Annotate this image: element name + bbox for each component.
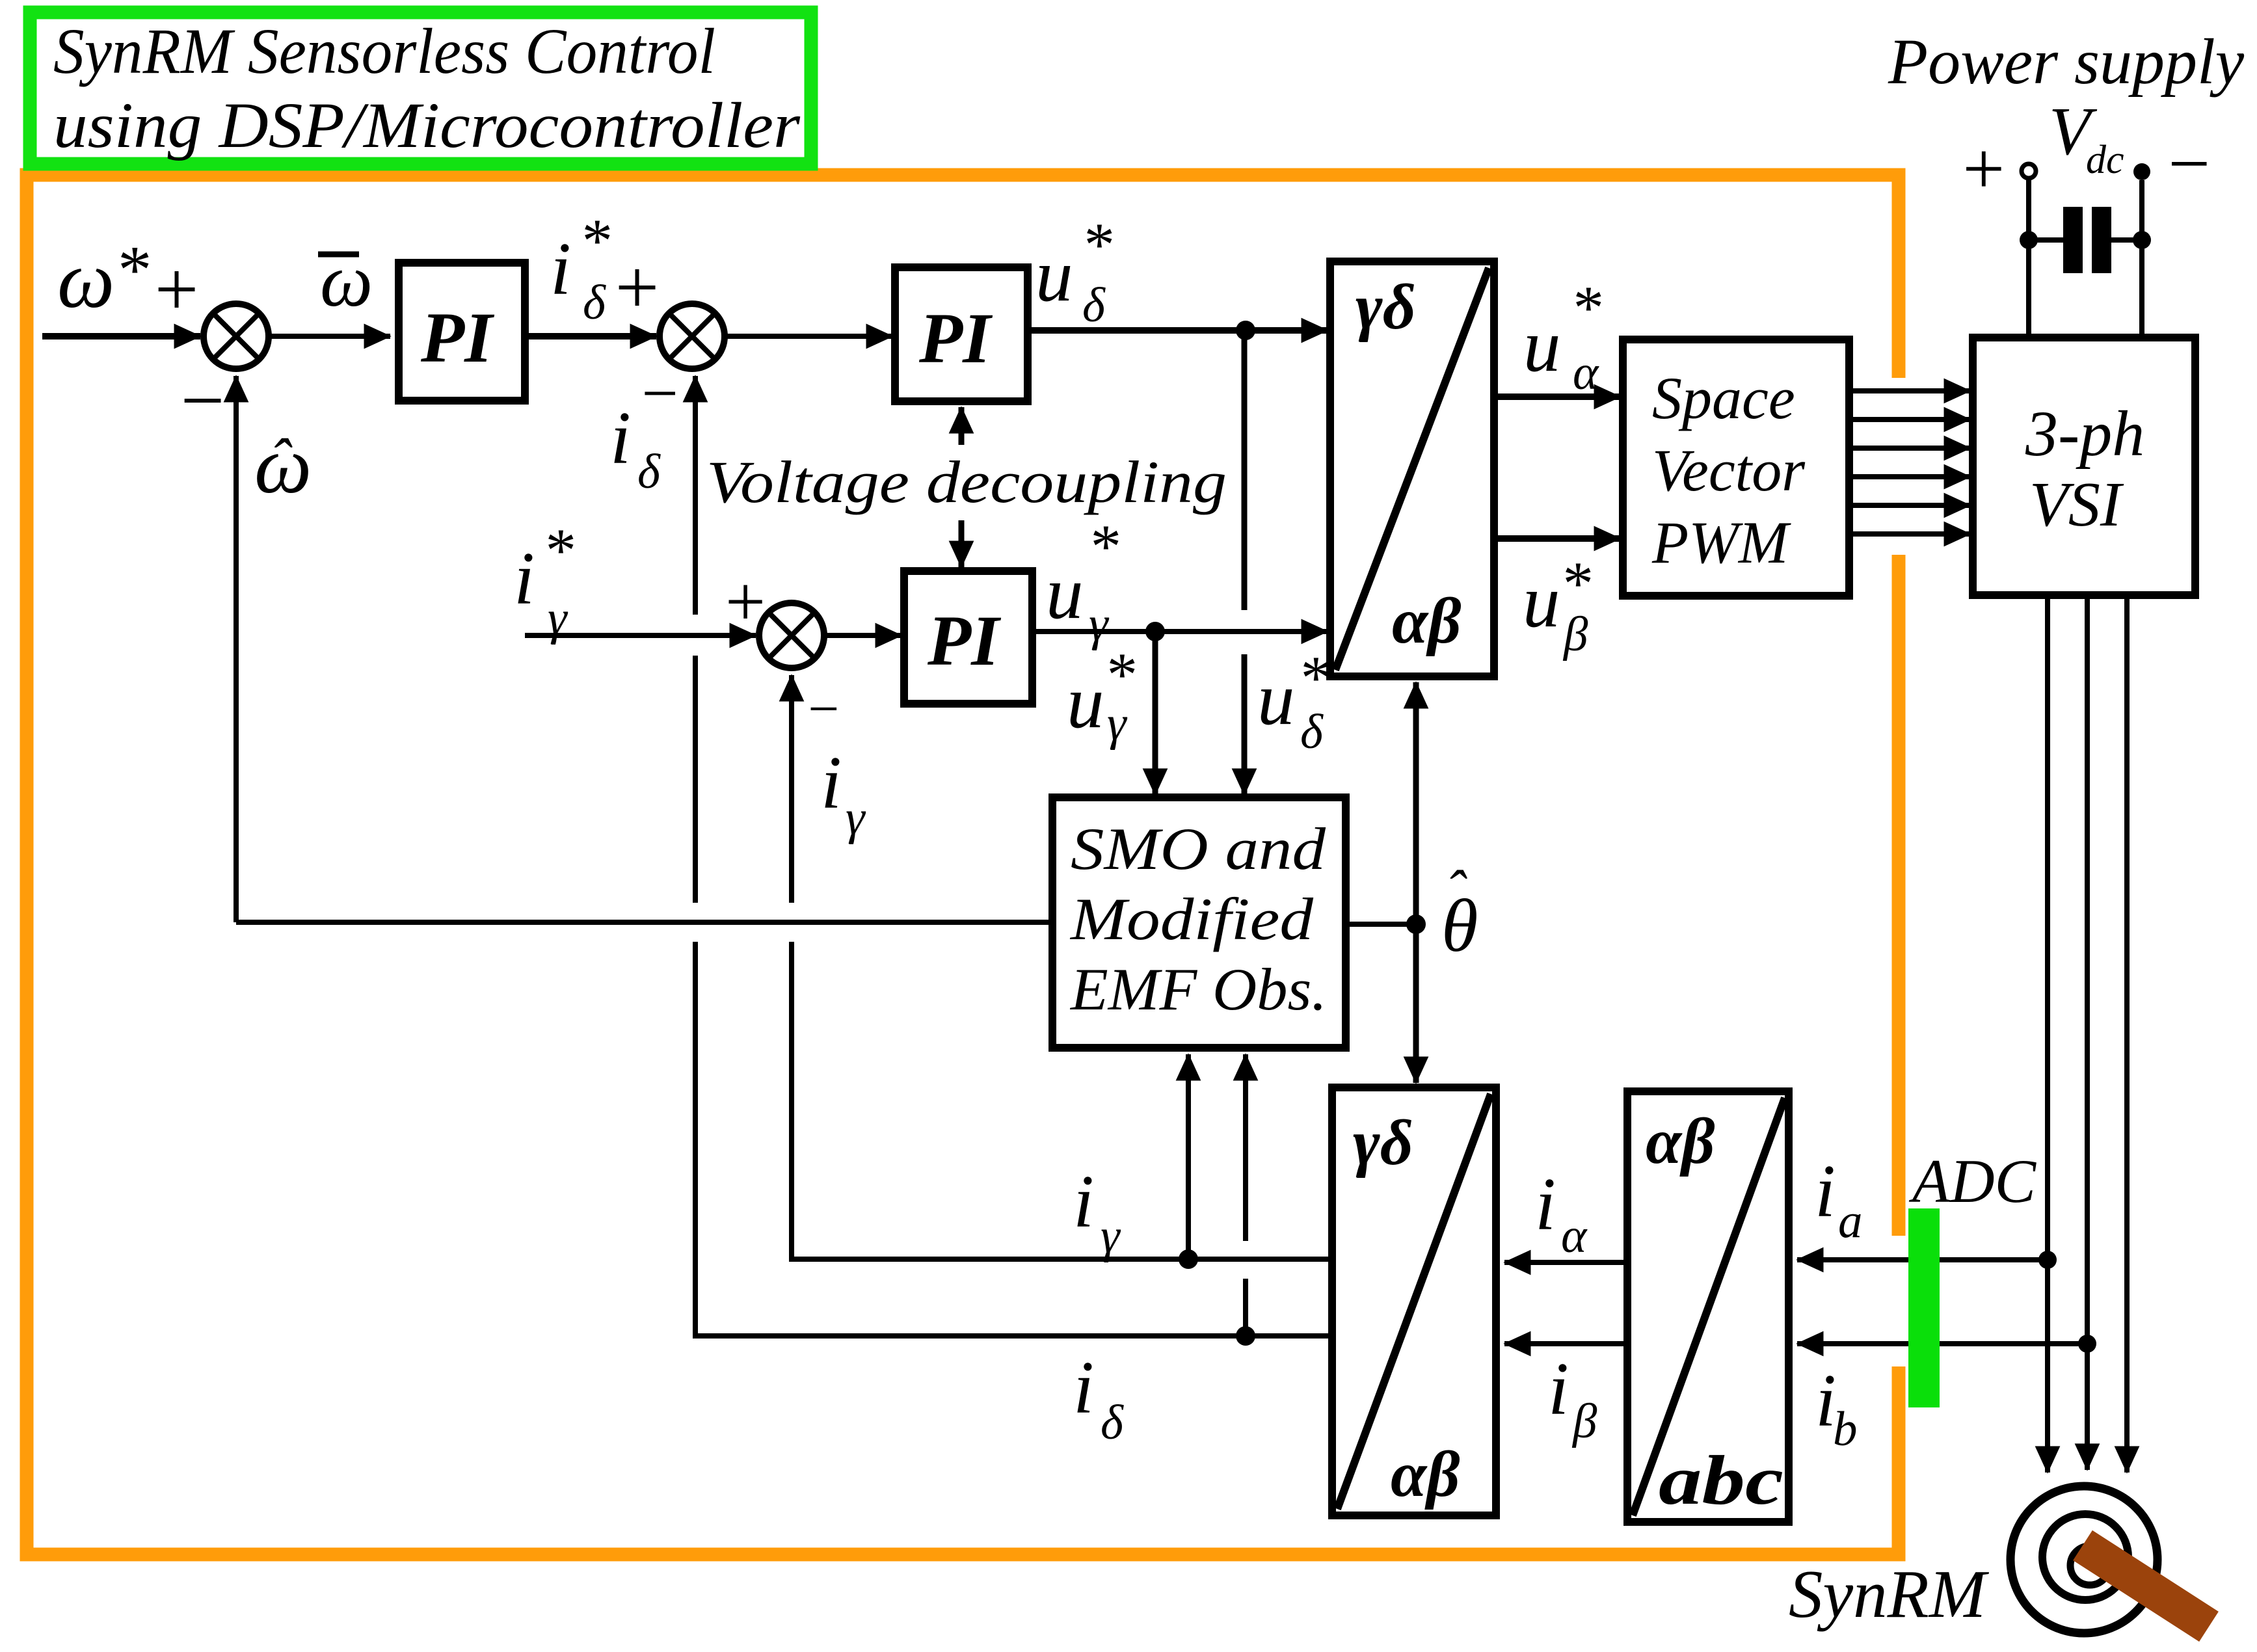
wire T1 to SVPWM (u*alpha) — [1494, 393, 1620, 400]
PI controller PI3 (gamma current) — [904, 571, 1032, 704]
node dot theta — [1406, 914, 1426, 934]
motor rotor circle — [2042, 1514, 2128, 1600]
svg-text:*: * — [1570, 273, 1601, 342]
svg-text:abc: abc — [1659, 1442, 1783, 1519]
svg-text:u: u — [1523, 560, 1560, 643]
label i-a — [1815, 1150, 1863, 1248]
node dot u*delta branch — [1236, 321, 1255, 340]
label u*alpha — [1523, 273, 1601, 400]
wire phase C — [2124, 595, 2130, 1472]
svg-text:δ: δ — [1300, 705, 1324, 759]
svg-text:PWM: PWM — [1651, 509, 1791, 576]
node dot + rail — [2020, 231, 2038, 249]
node dot phase A tap — [2038, 1251, 2057, 1269]
svg-text:PI: PI — [927, 601, 1001, 680]
wire theta down into T2 — [1413, 924, 1419, 1083]
motor M1 SynRM stator — [2010, 1486, 2157, 1633]
label i-gamma feedback at S3 — [821, 741, 866, 845]
arrow decoupling into PI2 — [959, 407, 965, 445]
wire u*delta down to SMO (upper) — [1242, 330, 1248, 610]
capacitor C (dc link) — [2029, 207, 2142, 273]
label i*gamma reference — [514, 516, 574, 645]
label omega-hat — [254, 421, 312, 511]
svg-text:u: u — [1046, 552, 1084, 634]
svg-text:i: i — [1073, 1160, 1094, 1243]
label u*delta to observer — [1257, 643, 1329, 759]
motor shaft (brown) — [2083, 1545, 2209, 1627]
svg-text:u: u — [1257, 658, 1295, 740]
svg-text:VSI: VSI — [2029, 470, 2124, 540]
svg-text:α: α — [1573, 346, 1599, 400]
node dot phase B tap — [2078, 1335, 2096, 1353]
label u*gamma to observer — [1067, 640, 1135, 751]
svg-text:using DSP/Microcontroller: using DSP/Microcontroller — [53, 89, 801, 161]
svg-text:αβ: αβ — [1391, 1438, 1460, 1510]
wire S3 to PI3 — [823, 633, 901, 638]
PI controller PI2 (delta current) — [895, 267, 1028, 401]
wire u*delta down to SMO (lower) — [1242, 654, 1248, 795]
svg-text:−: − — [2163, 122, 2214, 205]
svg-text:Voltage decoupling: Voltage decoupling — [706, 449, 1227, 515]
svg-text:i: i — [1548, 1348, 1569, 1430]
svg-text:Modified: Modified — [1069, 886, 1314, 952]
summing junction S3 — [759, 603, 824, 668]
wire Vdc- to VSI — [2139, 180, 2144, 338]
label u*delta — [1035, 210, 1112, 332]
label i*delta reference — [550, 206, 610, 330]
wire PI1 to S2 — [525, 333, 656, 340]
Space Vector PWM block — [1623, 340, 1849, 596]
wire theta up into T1 — [1413, 682, 1419, 924]
svg-text:SMO and: SMO and — [1071, 816, 1326, 882]
wire i-gamma feedback up into S3 — [789, 675, 794, 903]
wire i-delta feedback (mid) — [693, 656, 698, 903]
wire T1 to SVPWM (u*beta) — [1494, 535, 1620, 542]
svg-text:αβ: αβ — [1646, 1105, 1715, 1177]
svg-text:δ: δ — [583, 276, 606, 330]
wire i-delta feedback (low) — [695, 942, 1332, 1336]
wire Vdc+ to VSI — [2026, 178, 2031, 338]
svg-text:3-ph: 3-ph — [2025, 397, 2144, 470]
power supply section — [1888, 25, 2245, 338]
svg-text:*: * — [114, 232, 149, 308]
wire omega-hat up into S1 — [234, 376, 239, 922]
label u*beta — [1523, 549, 1591, 661]
svg-text:i: i — [1073, 1346, 1094, 1429]
summing junction S2 — [660, 304, 725, 369]
wire i-a from phase A — [1797, 1257, 2048, 1262]
svg-text:i: i — [1815, 1150, 1836, 1232]
svg-text:γ: γ — [846, 791, 866, 845]
svg-text:δ: δ — [1082, 278, 1106, 332]
wire PI2 to dq block (u*delta) — [1028, 327, 1328, 334]
label i-beta — [1548, 1348, 1597, 1448]
svg-text:ω: ω — [57, 235, 114, 325]
svg-text:*: * — [542, 516, 574, 585]
svg-text:Vector: Vector — [1652, 437, 1806, 503]
label i-delta feedback — [610, 397, 661, 499]
wire SMO i-delta input (upper) — [1243, 1054, 1248, 1241]
label i-gamma feedback lower — [1073, 1160, 1121, 1263]
wire omega-hat horizontal — [236, 920, 1052, 925]
DSP/microcontroller boundary (orange) — [27, 175, 1914, 1554]
svg-text:i: i — [821, 741, 842, 824]
svg-text:ˆ: ˆ — [269, 426, 293, 495]
title box — [30, 12, 811, 164]
svg-text:u: u — [1067, 661, 1104, 743]
svg-text:αβ: αβ — [1392, 585, 1462, 657]
wire S1 to PI1 — [267, 334, 390, 339]
svg-text:+: + — [610, 244, 663, 330]
svg-text:a: a — [1838, 1194, 1863, 1248]
label omega-bar — [318, 239, 373, 322]
observer block SMO and Modified EMF Obs. — [1052, 797, 1346, 1048]
wire i-beta T3 to T2 — [1504, 1341, 1627, 1346]
node dot u*gamma branch — [1145, 622, 1165, 641]
label omega* reference — [57, 232, 149, 325]
terminal + (open) — [2022, 164, 2036, 178]
label i-alpha — [1535, 1163, 1588, 1263]
wire i-gamma feedback (low) — [792, 942, 1332, 1259]
node dot i-gamma to SMO — [1179, 1249, 1198, 1269]
wire SMO theta output — [1346, 922, 1416, 927]
wire i*gamma input — [525, 633, 756, 638]
svg-text:SynRM Sensorless Control: SynRM Sensorless Control — [53, 15, 715, 87]
label theta-hat — [1441, 859, 1478, 967]
svg-text:ADC: ADC — [1908, 1147, 2037, 1216]
svg-text:δ: δ — [637, 445, 661, 499]
ADC sampling bar — [1908, 1208, 1940, 1407]
node dot - rail — [2133, 231, 2151, 249]
svg-text:α: α — [1561, 1209, 1588, 1263]
label u*gamma — [1046, 512, 1119, 651]
svg-text:γ: γ — [1107, 697, 1128, 751]
summing junction S1 — [204, 304, 269, 369]
svg-text:PI: PI — [918, 299, 993, 378]
svg-text:u: u — [1523, 304, 1561, 387]
motor inner circle — [2070, 1546, 2109, 1585]
wire SMO i-delta input (lower) — [1243, 1279, 1248, 1336]
label i-delta feedback lower — [1073, 1346, 1124, 1450]
PWM gate wires (6) — [1849, 391, 1970, 534]
svg-text:b: b — [1833, 1402, 1858, 1456]
svg-text:i: i — [610, 397, 631, 479]
node dot i-delta to SMO — [1236, 1326, 1255, 1346]
svg-text:Space: Space — [1652, 365, 1795, 431]
svg-text:+: + — [150, 246, 202, 332]
inverter U1 3-ph VSI — [1973, 338, 2195, 595]
svg-text:−: − — [176, 357, 228, 444]
svg-text:*: * — [1081, 210, 1112, 279]
PI controller PI1 (speed) — [399, 263, 525, 401]
wire i-delta feedback up into S2 — [693, 376, 698, 615]
wire i-b from phase B — [1797, 1341, 2087, 1346]
svg-text:dc: dc — [2086, 138, 2124, 182]
svg-text:*: * — [1088, 512, 1119, 581]
svg-text:−: − — [637, 357, 681, 429]
wire i-alpha T3 to T2 — [1504, 1260, 1627, 1265]
svg-text:γδ: γδ — [1356, 271, 1416, 343]
svg-text:i: i — [550, 228, 571, 310]
svg-text:*: * — [579, 206, 610, 275]
svg-text:β: β — [1562, 607, 1588, 661]
svg-text:u: u — [1035, 234, 1073, 317]
svg-text:*: * — [1298, 643, 1329, 712]
svg-text:−: − — [805, 678, 842, 739]
wire SMO i-gamma input — [1186, 1054, 1191, 1259]
svg-text:PI: PI — [420, 298, 494, 377]
svg-text:SynRM: SynRM — [1789, 1556, 1990, 1632]
arrow decoupling into PI3 — [959, 520, 965, 567]
svg-text:β: β — [1571, 1394, 1597, 1448]
svg-text:γ: γ — [1101, 1209, 1121, 1263]
svg-text:EMF Obs.: EMF Obs. — [1069, 956, 1327, 1022]
svg-text:Power supply: Power supply — [1888, 25, 2245, 98]
svg-text:+: + — [1958, 127, 2009, 210]
wire PI3 to dq block (u*gamma) — [1032, 629, 1328, 634]
svg-text:i: i — [514, 537, 535, 620]
wire u*gamma down to SMO — [1153, 632, 1158, 795]
wire phase A — [2045, 595, 2050, 1472]
wire phase B — [2085, 595, 2090, 1470]
svg-text:δ: δ — [1101, 1396, 1124, 1450]
svg-text:ˆ: ˆ — [1445, 859, 1467, 924]
wire omega* input — [42, 333, 200, 340]
wire S2 to PI2 — [723, 334, 892, 339]
label i-b — [1815, 1359, 1858, 1456]
terminal - (dot) — [2133, 163, 2150, 180]
svg-text:γδ: γδ — [1353, 1106, 1413, 1179]
svg-text:i: i — [1535, 1163, 1556, 1246]
